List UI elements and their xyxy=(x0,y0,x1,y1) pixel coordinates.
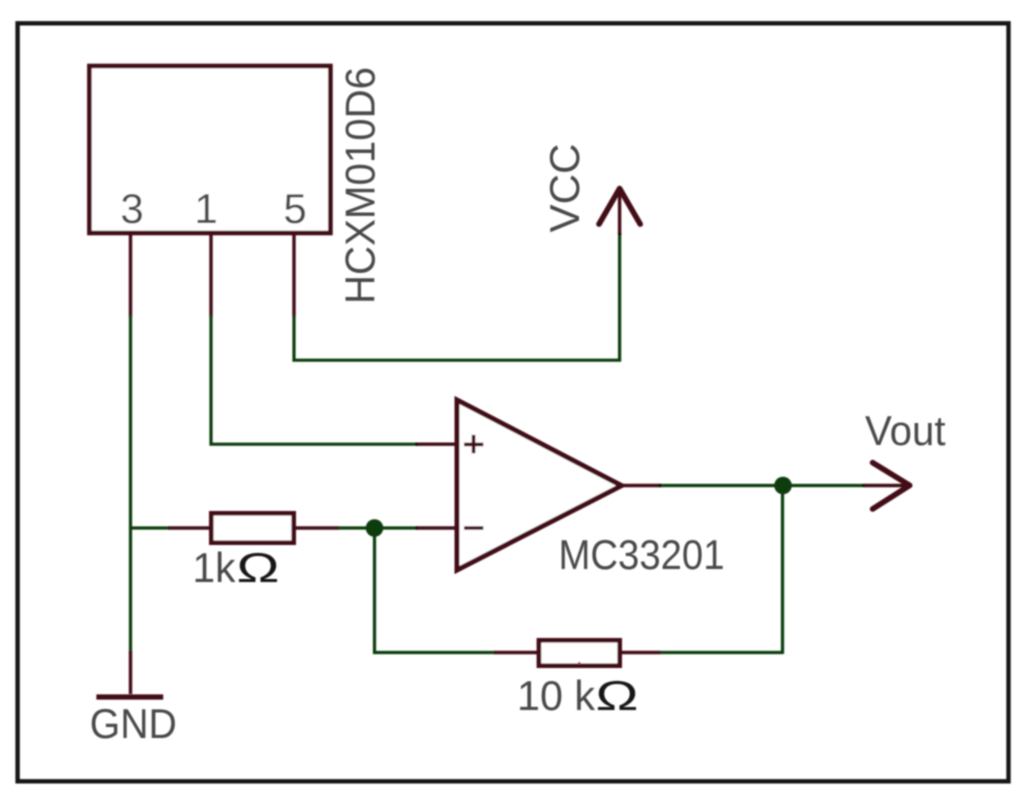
wire +input maroon stub xyxy=(416,443,457,446)
joint mark minus input xyxy=(415,526,418,529)
wire GND net to R1 green xyxy=(131,526,170,529)
op-amp U2 triangle xyxy=(457,400,622,570)
wire -input maroon stub xyxy=(416,526,457,529)
node A junction dot xyxy=(366,519,384,537)
wire R1 to node A green xyxy=(338,526,415,529)
IC U1 HCXM010D6 box xyxy=(89,66,330,233)
VCC arrow xyxy=(599,189,640,225)
svg-text:5: 5 xyxy=(283,185,306,232)
svg-text:Ω: Ω xyxy=(237,544,280,591)
wire pin1 to +input xyxy=(211,316,415,445)
plus input symbol xyxy=(464,435,483,453)
node B junction dot xyxy=(774,477,792,495)
resistor R2 10k body xyxy=(539,640,620,665)
svg-text:Vout: Vout xyxy=(865,407,946,454)
joint mark plus input xyxy=(415,443,418,446)
VCC stem maroon xyxy=(618,189,621,235)
wire pin3 to GND net vertical xyxy=(129,316,132,653)
feedback wire left green xyxy=(375,528,496,653)
wire output green xyxy=(660,484,863,487)
pin 5 stub xyxy=(292,235,295,317)
Vout arrow xyxy=(873,463,910,509)
svg-text:10 k: 10 k xyxy=(517,672,596,719)
wire pin5 to VCC xyxy=(294,234,620,360)
ground bar xyxy=(96,694,163,699)
R2 right lead maroon xyxy=(619,651,661,654)
joint mark output xyxy=(659,484,662,487)
resistor R1 1k body xyxy=(211,513,293,542)
svg-text:1: 1 xyxy=(194,185,217,232)
minus input symbol xyxy=(464,526,483,530)
R2 left lead maroon xyxy=(494,651,539,654)
svg-text:MC33201: MC33201 xyxy=(559,531,725,578)
pin 1 stub xyxy=(209,235,212,317)
R1 left lead maroon xyxy=(168,526,210,529)
svg-text:1k: 1k xyxy=(193,544,237,591)
Vout stem maroon xyxy=(864,484,908,487)
svg-text:HCXM010D6: HCXM010D6 xyxy=(337,67,384,304)
joint mark vout stem xyxy=(862,484,865,487)
R1 right lead maroon xyxy=(295,526,339,529)
red speck in R2 xyxy=(578,662,580,664)
svg-text:3: 3 xyxy=(120,185,143,232)
wire GND stub maroon xyxy=(129,651,132,694)
joint mark vcc stem xyxy=(618,233,621,236)
svg-text:Ω: Ω xyxy=(596,672,639,719)
output stub maroon xyxy=(621,484,661,487)
svg-text:VCC: VCC xyxy=(541,144,588,233)
feedback wire right green xyxy=(660,486,783,655)
pin 3 stub xyxy=(129,235,132,317)
svg-text:GND: GND xyxy=(90,700,177,747)
